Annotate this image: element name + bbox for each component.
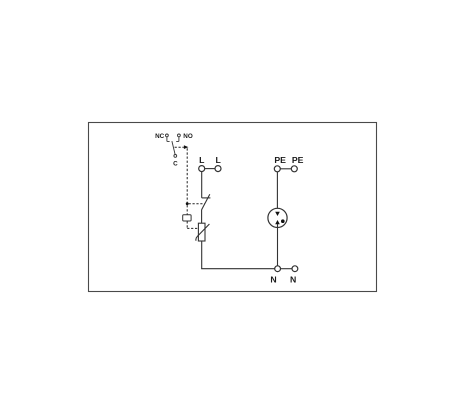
terminal NO bbox=[178, 134, 181, 137]
varistor RV1 body bbox=[198, 223, 205, 241]
wire varistor to N rail bbox=[201, 241, 203, 269]
linkage dashed branch to disconnect blade bbox=[189, 203, 205, 205]
wire between PE terminals bbox=[280, 168, 291, 170]
wire disconnect to varistor bbox=[201, 210, 203, 224]
svg-text:L: L bbox=[199, 155, 205, 165]
linkage dashed branch to varistor bbox=[187, 227, 198, 229]
changeover switch blade bbox=[172, 141, 175, 154]
NO stationary contact hook bbox=[176, 137, 179, 142]
wire between L terminals bbox=[205, 168, 215, 170]
terminal PE left bbox=[274, 166, 280, 172]
bottom N rail wire bbox=[201, 268, 275, 270]
gas discharge tube F1 envelope bbox=[268, 208, 287, 227]
terminal L left bbox=[199, 166, 205, 172]
terminal PE right bbox=[291, 166, 297, 172]
thermal actuator box bbox=[183, 215, 191, 221]
svg-text:PE: PE bbox=[292, 155, 304, 165]
svg-text:NO: NO bbox=[183, 133, 193, 140]
gas discharge tube lower electrode bbox=[275, 220, 280, 224]
NC stationary contact hook bbox=[167, 137, 170, 142]
gas indicator dot bbox=[281, 219, 285, 223]
wire PE down to gas discharge tube bbox=[276, 172, 278, 212]
wire L down to disconnect bbox=[201, 172, 203, 198]
mechanical linkage dashed horizontal from blade bbox=[175, 146, 184, 148]
svg-text:N: N bbox=[270, 275, 276, 285]
terminal N left bbox=[275, 266, 281, 272]
svg-text:NC: NC bbox=[155, 133, 165, 140]
linkage dashed vertical to actuator bbox=[186, 205, 188, 215]
linkage arrowhead bbox=[184, 145, 189, 149]
thermal disconnect fixed contact foot bbox=[202, 197, 211, 199]
wire between N terminals bbox=[281, 268, 293, 270]
enclosure outline bbox=[89, 123, 377, 292]
gas discharge tube upper electrode bbox=[275, 212, 280, 216]
terminal N right bbox=[292, 266, 298, 272]
terminal C bbox=[174, 155, 177, 158]
terminal NC bbox=[166, 134, 169, 137]
linkage junction dot bbox=[186, 202, 189, 205]
svg-text:PE: PE bbox=[274, 155, 286, 165]
thermal disconnect blade bbox=[202, 194, 210, 210]
linkage dashed below actuator bbox=[186, 221, 188, 228]
svg-text:N: N bbox=[290, 275, 296, 285]
varistor diagonal stroke bbox=[196, 224, 210, 241]
svg-text:L: L bbox=[215, 155, 221, 165]
svg-text:C: C bbox=[173, 161, 178, 168]
terminal L right bbox=[215, 166, 221, 172]
mechanical linkage dashed vertical bbox=[186, 148, 188, 203]
wire gas discharge tube to N terminal bbox=[277, 224, 279, 266]
